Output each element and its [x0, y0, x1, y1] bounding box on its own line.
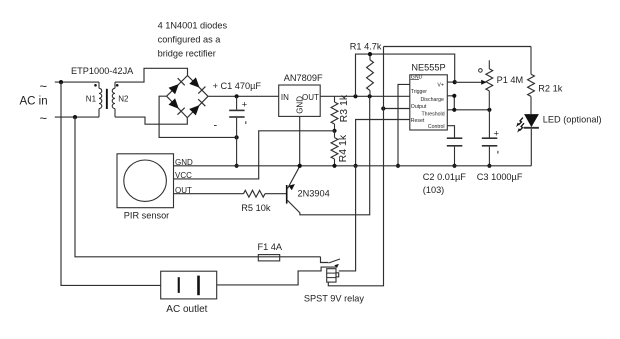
svg-text:OUT: OUT [302, 93, 319, 102]
PIR sensor lens circle [124, 160, 167, 201]
resistor R4 [334, 131, 336, 138]
wire V+ jog [356, 54, 455, 96]
svg-text:LED (optional): LED (optional) [543, 114, 602, 124]
wire output net vertical to relay coil [328, 47, 383, 286]
svg-text:R2 1k: R2 1k [538, 83, 562, 93]
transistor Q1 base bar [286, 185, 288, 204]
svg-text:GND: GND [175, 158, 193, 167]
svg-text:configured as a: configured as a [158, 35, 222, 45]
node junction Threshold [452, 108, 456, 112]
node junction bridge minus / C1 [235, 135, 239, 139]
wire AC line1 to outlet [61, 82, 161, 285]
wire 555 Output pin row [383, 108, 410, 110]
bridge diamond edges [167, 76, 188, 97]
node junction Reset on rail [354, 164, 358, 168]
svg-text:AN7809F: AN7809F [284, 73, 323, 83]
LED D5 cathode bar [524, 127, 539, 129]
transistor Q1 emitter arrow [289, 184, 295, 190]
relay K1 coil right terminal [336, 273, 339, 277]
transformer N1 polarity dot [94, 84, 97, 87]
wire 555 Reset pin to rail [356, 120, 410, 166]
node junction regulator GND on rail [298, 164, 302, 168]
node junction emitter on rail [298, 164, 302, 168]
node junction Discharge [452, 94, 456, 98]
AC outlet slot right [197, 276, 200, 296]
svg-text:AC in: AC in [20, 96, 48, 108]
node junction AC bottom [73, 115, 77, 119]
svg-text:bridge rectifier: bridge rectifier [158, 48, 216, 58]
svg-text:Discharge: Discharge [421, 97, 444, 103]
node junction 9V row / V+ jog [353, 94, 357, 98]
resistor R5 [244, 190, 266, 197]
wire 555 Threshold pin to P1 [447, 109, 489, 111]
svg-text:ETP1000-42JA: ETP1000-42JA [71, 66, 134, 76]
transformer N2 polarity dot [116, 84, 119, 87]
potentiometer P1 [488, 60, 490, 69]
relay switch fixed contact [321, 257, 329, 263]
svg-text:V+: V+ [437, 83, 444, 89]
transformer core [106, 89, 108, 109]
svg-text:+: + [494, 129, 500, 140]
svg-text:+: + [242, 99, 248, 110]
LED D5 triangle [524, 114, 539, 127]
wire 9V row OUT to 555 Trigger [320, 95, 410, 97]
node junction C3 bottom [487, 164, 491, 168]
timer U1 NE555P box [410, 75, 448, 130]
capacitor C2 [447, 137, 463, 139]
wire 555 Discharge pin [447, 96, 454, 110]
svg-text:F1 4A: F1 4A [258, 242, 283, 252]
wire AC line2 to fuse row [75, 117, 321, 257]
capacitor C3 [488, 110, 490, 138]
wire AC bottom terminal [55, 116, 99, 118]
wire relay switched return to outlet [217, 267, 338, 285]
LED D5 emission arrows [518, 118, 523, 125]
svg-text:C3 1000µF: C3 1000µF [477, 172, 523, 182]
resistor R1 [369, 54, 371, 60]
svg-text:N2: N2 [118, 95, 129, 104]
relay switch blade [329, 259, 340, 263]
svg-text:Control: Control [428, 124, 445, 130]
wire LED to rail end [530, 129, 532, 166]
node junction V+ pin [453, 80, 457, 84]
svg-text:2N3904: 2N3904 [298, 189, 330, 199]
svg-text:PIR sensor: PIR sensor [124, 210, 169, 220]
diode D4 (bottom-right edge) [189, 105, 199, 115]
svg-text:GND: GND [296, 96, 305, 114]
wire PIR OUT to R5 [174, 193, 244, 195]
svg-text:+ C1 470µF: + C1 470µF [213, 81, 262, 91]
wire ground rail [174, 165, 532, 167]
potentiometer P1 wiper arrow [455, 81, 483, 83]
transformer secondary N2 winding [114, 82, 116, 88]
diode D1 (left-top edge) [169, 84, 179, 94]
svg-text:-: - [214, 119, 218, 131]
label C1 minus tick [245, 121, 247, 124]
transistor Q1 emitter [288, 166, 300, 188]
node junction R4 bottom [332, 164, 336, 168]
svg-text:Reset: Reset [411, 118, 425, 124]
potentiometer P1 open terminal circle [479, 69, 483, 73]
wire bridge minus to rail [159, 96, 237, 137]
node junction Threshold / P1 / C3 [487, 108, 491, 112]
resistor R2 [530, 47, 532, 75]
wire AC top terminal [55, 81, 99, 83]
wire bridge plus to regulator IN [208, 95, 279, 97]
svg-text:R5 10k: R5 10k [241, 203, 271, 213]
AC outlet slot left [178, 277, 180, 293]
svg-text:C2 0.01µF: C2 0.01µF [423, 172, 466, 182]
svg-text:~: ~ [40, 79, 48, 94]
wire relay coil to ground net [339, 166, 356, 271]
node junction Output [381, 106, 385, 110]
wire regulator GND pin [299, 116, 301, 165]
node junction R3/R4 divider [332, 129, 336, 133]
node junction C1 bottom on ground rail [235, 164, 239, 168]
node junction 555 GND on rail [396, 164, 400, 168]
relay switch arrow [334, 264, 339, 268]
diode D3 (left-bottom edge) [169, 98, 179, 108]
svg-text:4 1N4001 diodes: 4 1N4001 diodes [158, 21, 228, 31]
label C3 minus tick [497, 151, 499, 154]
wire 555 GND pin to rail [398, 84, 410, 165]
node junction C1 top [235, 94, 239, 98]
node junction AC top [59, 80, 63, 84]
node junction R1 top [368, 52, 372, 56]
wire PIR VCC to divider tap [174, 131, 335, 179]
AC outlet box [161, 271, 217, 299]
wire 555 V+ pin [447, 81, 454, 83]
svg-text:R1 4.7k: R1 4.7k [350, 41, 382, 51]
wire N2 bottom to bridge bottom vertex [115, 117, 187, 124]
svg-text:NE555P: NE555P [411, 63, 445, 73]
transformer primary N1 winding [98, 82, 100, 88]
node junction 9V row / R1 bottom [368, 94, 372, 98]
svg-text:AC outlet: AC outlet [166, 304, 207, 315]
svg-text:N1: N1 [86, 95, 97, 104]
wire 555 Control pin to C2 [447, 126, 454, 139]
resistor R3 [334, 96, 336, 102]
svg-text:SPST 9V relay: SPST 9V relay [304, 294, 364, 304]
svg-text:(103): (103) [423, 185, 444, 195]
transistor Q1 collector [288, 96, 370, 215]
svg-text:P1 4M: P1 4M [497, 75, 524, 85]
diode D2 (top-right edge) [189, 77, 199, 87]
svg-text:Output: Output [411, 104, 427, 110]
svg-text:Trigger: Trigger [411, 89, 428, 95]
svg-text:IN: IN [281, 93, 289, 102]
svg-text:Threshold: Threshold [422, 112, 445, 118]
wire output top rail [384, 46, 532, 48]
svg-text:~: ~ [40, 111, 48, 126]
node junction C2 bottom [452, 164, 456, 168]
svg-text:R4 1k: R4 1k [337, 134, 349, 162]
regulator U2 AN7809F box [279, 85, 321, 116]
svg-text:R3 1k: R3 1k [338, 94, 350, 122]
PIR sensor box [117, 154, 174, 208]
capacitor C1 (electrolytic) [236, 96, 238, 109]
wire N2 top to bridge top vertex [115, 68, 188, 82]
fuse F1 [258, 255, 279, 261]
relay K1 coil box [327, 269, 336, 282]
wire R5 to base [265, 193, 286, 195]
